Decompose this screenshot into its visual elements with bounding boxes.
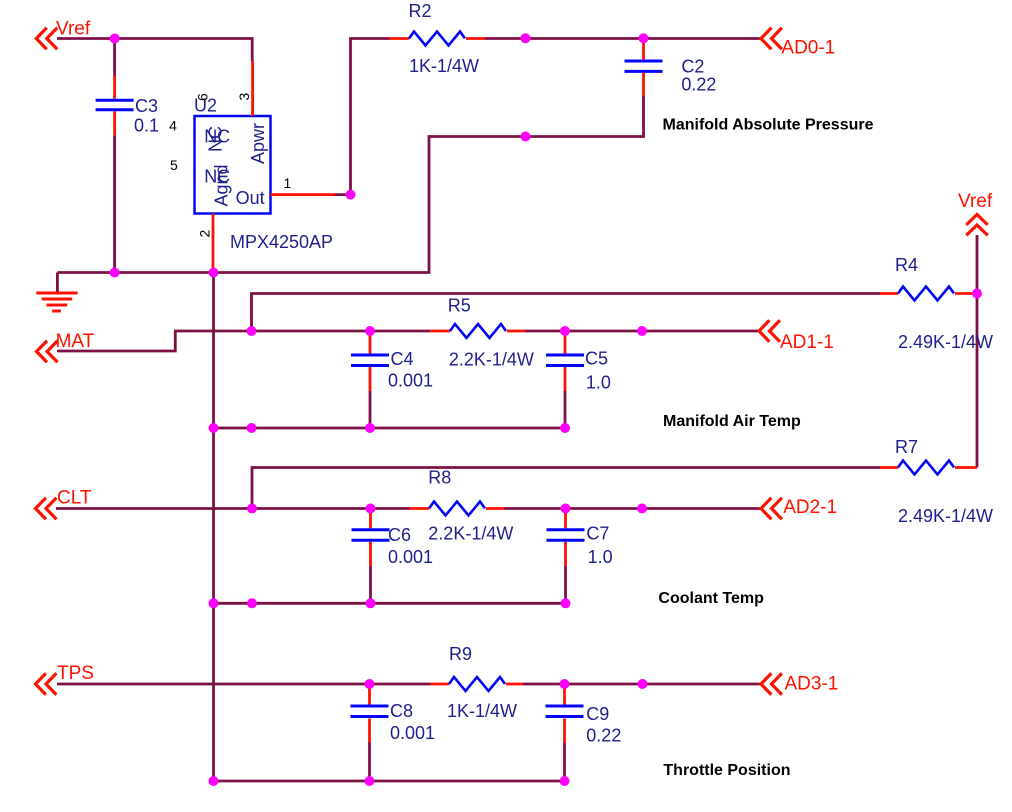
port CLT bbox=[36, 488, 92, 520]
wire pin2 to ground bus bbox=[212, 268, 215, 273]
node CLT bus seg bbox=[247, 598, 257, 608]
svg-text:C6: C6 bbox=[388, 525, 411, 545]
node MAT seg bbox=[637, 326, 647, 336]
svg-text:4: 4 bbox=[169, 118, 177, 134]
port MAT bbox=[37, 331, 95, 362]
svg-text:1: 1 bbox=[284, 175, 292, 191]
svg-text:AD1-1: AD1-1 bbox=[780, 332, 834, 353]
capacitor C8 bbox=[351, 684, 436, 743]
svg-text:Manifold Absolute Pressure: Manifold Absolute Pressure bbox=[663, 117, 874, 134]
node C9 bottom bbox=[560, 776, 570, 786]
svg-text:2.2K-1/4W: 2.2K-1/4W bbox=[449, 350, 534, 370]
svg-text:C9: C9 bbox=[586, 704, 609, 724]
node R7 feed CLT bbox=[247, 504, 257, 514]
port Vref top-right bbox=[958, 191, 993, 235]
svg-text:6: 6 bbox=[195, 93, 211, 101]
resistor R9 bbox=[431, 644, 524, 721]
node C2 top bbox=[639, 33, 649, 43]
node Out junction bbox=[346, 190, 356, 200]
node R4 Vref bbox=[972, 289, 982, 299]
wire ground bus to C2 bottom bbox=[57, 96, 643, 273]
node C2 gnd seg bbox=[521, 132, 531, 142]
svg-text:1.0: 1.0 bbox=[588, 547, 613, 567]
node C4 top bbox=[365, 326, 375, 336]
node C8 bottom bbox=[365, 776, 375, 786]
resistor R5 bbox=[430, 296, 534, 370]
wire ground stem bbox=[56, 273, 59, 292]
svg-text:2.49K-1/4W: 2.49K-1/4W bbox=[898, 506, 993, 526]
wire R2 to AD0-1 bbox=[485, 37, 761, 40]
wire R7 line and feed bbox=[252, 468, 880, 509]
resistor R7 bbox=[880, 437, 993, 526]
node rail MAT bus bbox=[209, 423, 219, 433]
capacitor C2 bbox=[625, 39, 717, 97]
pin 1 stub bbox=[271, 193, 336, 196]
capacitor C6 bbox=[352, 509, 434, 568]
wire Out riser to R2 bbox=[335, 39, 390, 195]
node R2 out seg bbox=[521, 33, 531, 43]
wire MAT bottom bus bbox=[214, 427, 566, 430]
svg-text:R8: R8 bbox=[428, 467, 451, 487]
svg-text:C7: C7 bbox=[586, 524, 609, 544]
capacitor C7 bbox=[547, 509, 613, 568]
svg-text:C8: C8 bbox=[390, 701, 413, 721]
pin 3 stub bbox=[251, 61, 254, 116]
svg-text:Coolant Temp: Coolant Temp bbox=[658, 590, 764, 607]
wire main ground rail bbox=[212, 273, 215, 782]
svg-text:AD0-1: AD0-1 bbox=[781, 37, 835, 58]
capacitor C3 bbox=[96, 76, 159, 135]
ground bbox=[36, 293, 77, 311]
port AD3-1 bbox=[761, 673, 838, 694]
svg-text:1K-1/4W: 1K-1/4W bbox=[409, 56, 479, 76]
node rail TPS bus bbox=[209, 776, 219, 786]
port AD0-1 bbox=[761, 28, 835, 59]
resistor R4 bbox=[880, 255, 993, 352]
wire CLT bottom bus bbox=[214, 602, 566, 605]
svg-text:R5: R5 bbox=[448, 296, 471, 316]
node C4 bottom bbox=[365, 423, 375, 433]
node pin2 gnd bbox=[209, 268, 219, 278]
wire Vref-top vertical bbox=[976, 235, 979, 468]
capacitor C9 bbox=[546, 684, 622, 746]
wire C9 bottom lower bbox=[563, 743, 566, 782]
node C5 bottom bbox=[560, 423, 570, 433]
svg-text:0.001: 0.001 bbox=[388, 371, 433, 391]
port AD1-1 bbox=[759, 320, 834, 353]
svg-text:1K-1/4W: 1K-1/4W bbox=[447, 701, 517, 721]
wire TPS line bbox=[57, 683, 431, 686]
svg-text:R4: R4 bbox=[895, 255, 918, 275]
pin 2 stub bbox=[212, 214, 215, 269]
wire C3 top stub upper bbox=[113, 39, 116, 77]
svg-text:R7: R7 bbox=[895, 437, 918, 457]
svg-text:MPX4250AP: MPX4250AP bbox=[230, 232, 333, 252]
port TPS bbox=[36, 663, 94, 695]
wire C8 bottom lower bbox=[368, 743, 371, 782]
svg-text:AD3-1: AD3-1 bbox=[785, 674, 839, 695]
resistor R8 bbox=[410, 467, 514, 543]
svg-text:Vref: Vref bbox=[958, 191, 993, 212]
svg-text:Throttle Position: Throttle Position bbox=[663, 762, 790, 779]
node rail CLT bus bbox=[209, 598, 219, 608]
wire R5 to AD1-1 bbox=[525, 330, 759, 333]
svg-text:0.22: 0.22 bbox=[681, 74, 716, 94]
wire R8 to AD2-1 bbox=[504, 507, 761, 510]
node C5 top bbox=[560, 326, 570, 336]
svg-text:2.49K-1/4W: 2.49K-1/4W bbox=[898, 332, 993, 352]
svg-text:R9: R9 bbox=[449, 644, 472, 664]
svg-text:Apwr: Apwr bbox=[248, 123, 268, 164]
svg-text:CLT: CLT bbox=[57, 488, 92, 509]
svg-text:3: 3 bbox=[236, 93, 252, 101]
svg-text:Agnd: Agnd bbox=[212, 164, 232, 206]
svg-text:5: 5 bbox=[170, 157, 178, 173]
node C6 bottom bbox=[366, 598, 376, 608]
svg-text:R2: R2 bbox=[409, 1, 432, 21]
node Vref/C3 bbox=[110, 34, 120, 44]
resistor R2 bbox=[389, 1, 485, 76]
svg-text:Manifold Air Temp: Manifold Air Temp bbox=[663, 413, 801, 430]
svg-text:TPS: TPS bbox=[57, 663, 94, 684]
svg-text:AD2-1: AD2-1 bbox=[783, 497, 837, 518]
wire C4 bottom lower bbox=[369, 391, 372, 428]
node TPS seg bbox=[638, 679, 648, 689]
wire C7 bottom lower bbox=[564, 566, 567, 603]
node C9 top bbox=[560, 679, 570, 689]
section titles bbox=[658, 117, 873, 779]
port Vref top-left bbox=[36, 19, 91, 50]
node C8 top bbox=[365, 679, 375, 689]
svg-text:2: 2 bbox=[197, 230, 213, 238]
capacitor C4 bbox=[351, 331, 433, 391]
wire C3 bottom to ground bus bbox=[113, 135, 116, 272]
capacitor C5 bbox=[546, 331, 611, 392]
wire TPS bottom bus bbox=[214, 780, 566, 783]
svg-text:Vref: Vref bbox=[56, 19, 91, 40]
port AD2-1 bbox=[761, 497, 837, 519]
node MAT bus seg bbox=[247, 423, 257, 433]
node C7 bottom bbox=[561, 598, 571, 608]
wire C6 bottom lower bbox=[369, 566, 372, 603]
svg-text:0.001: 0.001 bbox=[388, 547, 433, 567]
transducer U2 MPX4250AP bbox=[169, 61, 335, 268]
svg-text:1.0: 1.0 bbox=[586, 372, 611, 392]
node CLT seg bbox=[637, 504, 647, 514]
svg-text:2.2K-1/4W: 2.2K-1/4W bbox=[428, 524, 513, 544]
wire C5 bottom lower bbox=[564, 391, 567, 428]
wire Vref to U2 pin 3 bbox=[57, 39, 252, 62]
svg-text:C3: C3 bbox=[135, 96, 158, 116]
svg-text:0.001: 0.001 bbox=[390, 723, 435, 743]
node R4 feed MAT bbox=[247, 326, 257, 336]
wire R9 to AD3-1 bbox=[523, 683, 761, 686]
svg-text:Out: Out bbox=[236, 188, 265, 208]
svg-text:0.22: 0.22 bbox=[586, 726, 621, 746]
node C3 gnd bbox=[110, 268, 120, 278]
svg-text:0.1: 0.1 bbox=[134, 115, 159, 135]
node C6 top bbox=[366, 504, 376, 514]
node C7 top bbox=[561, 504, 571, 514]
svg-text:C4: C4 bbox=[391, 349, 414, 369]
wire R4 line and feed bbox=[252, 294, 881, 332]
svg-text:C5: C5 bbox=[585, 348, 608, 368]
svg-text:NC: NC bbox=[206, 126, 226, 152]
wire CLT line bbox=[56, 507, 410, 510]
svg-text:MAT: MAT bbox=[56, 331, 95, 352]
wire MAT line bbox=[57, 331, 430, 351]
